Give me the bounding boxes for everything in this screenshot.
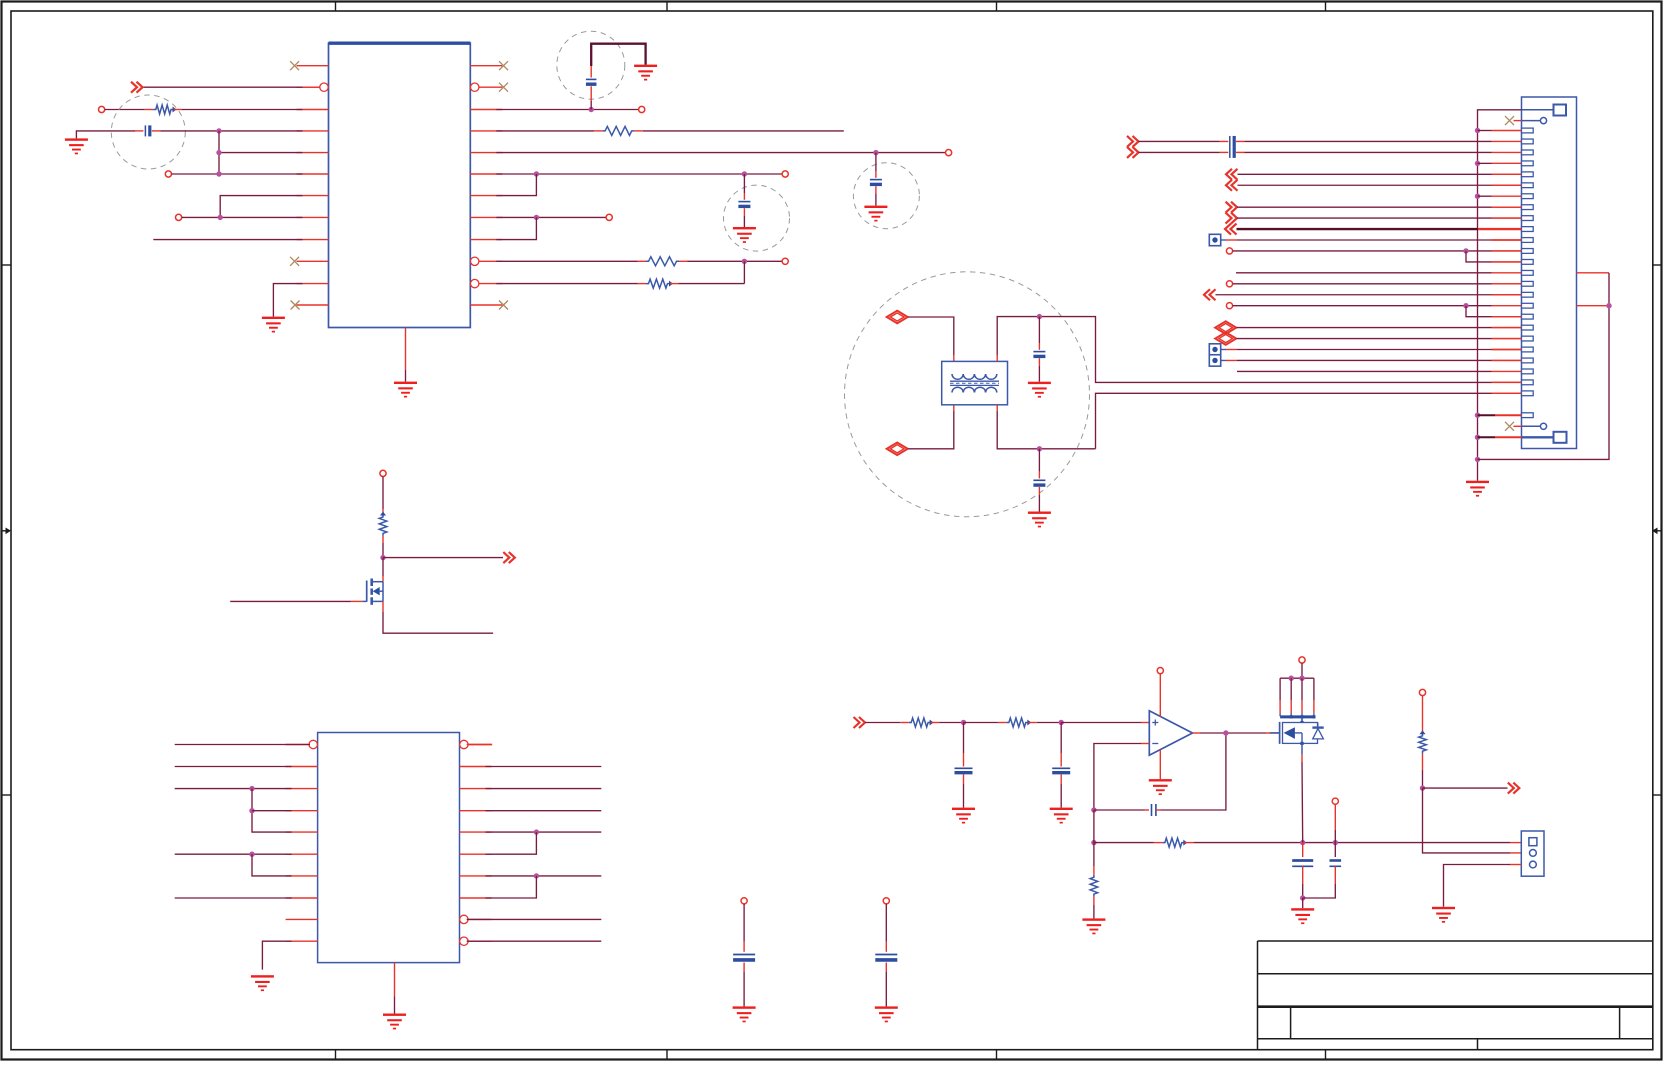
ground symbol J2 [1432,907,1455,923]
connector J1 shield pad top [1522,105,1567,116]
wire R4 to branch [670,283,744,285]
wire U1 bottom pin to ground [405,370,407,382]
no-connect pin2 right [499,83,508,92]
terminal C5 top [741,898,747,904]
test pad TP1 [1209,234,1226,245]
wire J1 row9 [1237,217,1522,219]
connector J2 body [1521,831,1544,876]
resistor R9 vertical [1090,875,1098,897]
IC U1 right pin stubs [470,66,502,305]
no-connect J1 mount top [1505,116,1522,125]
wire J1 shield bottom [1478,436,1522,438]
IC U1 body [329,43,471,327]
wire U1 pin11 to ground [273,284,302,317]
IC U2 right pin stubs [460,745,492,942]
terminal pin6 right [782,171,788,177]
wire node to Q1 drain [382,558,384,582]
wire U1 pin11 to R4 [496,283,646,285]
IC U2 left pin stubs [286,745,318,942]
title block [1258,941,1653,1050]
wire T1 secondary top [997,314,1092,362]
node fb lower junction [1091,840,1096,845]
ground symbol U1 pin11 [262,317,285,333]
wire secondary bottom to J1 [1096,393,1522,449]
wire Q1 drain pullup [382,477,384,515]
wire Q1 source [383,601,493,633]
no-connect J1 mount bottom [1505,422,1522,431]
wire C10 to ground [963,774,965,807]
wire C8 branch [1038,449,1040,512]
ground symbol top-left [65,138,88,154]
wire node to J2 pin2 [1423,788,1522,853]
terminal pin5 right [946,150,952,156]
wire J1 row10 thick [1237,228,1522,230]
wire U2 pin3 left [175,786,292,791]
resistor R4 [646,279,673,288]
wire node1 to C10 [963,723,965,767]
wire Q2 gate stub [1270,732,1280,734]
wire U1 pin3 right [496,107,638,112]
ground symbol C6 [875,1006,898,1022]
input port chevron J1 r9 [1226,213,1238,224]
wire U2 pin19 right [467,918,602,920]
wire J1 row2 [1139,140,1492,142]
terminal pin6 left [165,171,171,177]
connector J2 pin1 pad [1529,838,1537,846]
output port chevron J1 r10 [1225,224,1237,235]
ground symbol C8 [1028,512,1051,528]
wire U3 vee [1159,750,1161,780]
port diamond T1 in- [887,443,908,456]
wire J1 row17 [1233,303,1492,308]
capacitor C15 series [1230,147,1234,158]
wire R8 to source node [1184,840,1521,845]
test pad TP2 [1209,344,1226,355]
terminal pin3 left [99,106,105,112]
wire fb down [1093,810,1095,843]
capacitor C2 [586,79,597,84]
wire J1 row23 [1237,370,1492,372]
output port chevron Q1 [503,552,515,563]
wire C6 [885,904,887,1007]
wire U2 pin6 left [175,852,292,857]
wire U3 vcc [1159,674,1161,717]
connector J1 pin boxes [1522,128,1534,417]
ground symbol U2 power [383,1014,406,1030]
ground symbol R9 [1082,918,1105,934]
wire U1 pin4 right to R2 [496,130,602,132]
test pad TP3 [1209,355,1226,366]
wire C3 branch [875,153,877,206]
terminal R10 top [1419,689,1425,695]
terminal pin8 left [176,214,182,220]
inverting bubble U2 pin19 right [460,915,468,923]
terminal Q1 drain top [380,470,386,476]
input port chevron J1 r3 [1127,147,1139,158]
branch wire rows12-13 [1466,251,1522,262]
wire U2 pin12 right [486,766,602,768]
wire C14 top [1334,804,1336,857]
wire C1 to U1 pin4 [152,128,303,133]
wire U1 pin5 right [496,150,945,155]
terminal Q2 drain [1299,657,1305,663]
connector J2 pin3 pad [1530,861,1537,868]
inverting bubble U1 pin2 right [471,83,479,91]
wire node to port [383,557,503,559]
wire R10 top [1422,696,1424,734]
dashed emphasis circle cap C3 [853,163,919,229]
transistor Q2 [1280,715,1324,745]
resistor R5 vertical [379,512,387,536]
wire U2 pin14 right [486,810,602,812]
wire C4 branch [743,174,745,227]
IC U1 bottom power pin stub [405,328,407,371]
wire T1 secondary bottom [997,405,1095,452]
capacitor C6 [875,955,897,960]
input port chevron J1 r2 [1127,136,1139,147]
wire R3 onward [679,259,782,264]
wire U2 pin2 left [175,766,292,768]
wire junction to U2 pin4 [252,810,292,812]
wire U2 pin17 right [486,873,602,878]
capacitor C11 [1052,768,1070,772]
wire pin3 left segment [105,109,154,111]
wire C12 to output [1156,733,1226,810]
border centre arrow left [2,528,12,535]
wire Q2 source [1301,743,1304,842]
wire J1 row3 [1139,151,1492,153]
capacitor C3 [870,180,882,185]
no-connect pin1 right [499,61,508,70]
output port chevron feedback [1508,783,1520,794]
wire R5 to node [382,536,384,558]
IC U1 left pin stubs [297,66,329,305]
wire J1 pin27 [1478,414,1522,416]
ground symbol C5 [733,1006,756,1022]
ground symbol C2 [634,65,657,81]
wire net CLK to U1 pin2 [143,86,322,88]
wire R7 to node2 [1028,720,1064,725]
port diamond J1 r19 [1215,321,1236,334]
terminal J1 r17 [1226,303,1232,309]
output port chevron J1 r5 [1226,169,1238,180]
wire J2 pin3 to ground [1444,865,1522,907]
wire J1 row21 [1226,349,1522,351]
capacitor C14 [1330,861,1342,867]
wire J1 row11 [1226,239,1522,241]
wire fb to R9 [1093,843,1095,875]
resistor R10 vertical [1419,730,1427,753]
capacitor C1 series [145,125,149,136]
drain rail [1280,676,1314,681]
node Q1 gate-feed junction [380,555,385,560]
inverting bubble U1 pin11 right [471,279,479,287]
ground symbol C10 [952,808,975,824]
dashed emphasis circle cap C4 [724,185,790,251]
resistor R2 [603,126,635,135]
wire U2 pin15 right [486,829,602,834]
wire node to port [1423,787,1508,789]
node feedback junction [1091,807,1096,812]
wire U2 pin11 right stub [467,744,493,746]
dashed emphasis circle top cap [557,31,625,99]
wire J1 bus stub r1 [1478,130,1492,132]
IC U2 body [318,733,460,963]
wire U1 pin10 to R3 [496,260,646,262]
wire U2 pin1 left [175,744,310,746]
wire R9 to ground [1093,897,1095,919]
wire T1 primary top [908,317,954,361]
terminal C14 top [1332,798,1338,804]
wire R1 to U1 pin3 [174,109,303,111]
wire cap bank node [1302,843,1304,857]
wire J1 row22 [1226,359,1522,361]
wire C13 to gnd node [1300,866,1305,900]
wire U2 power pin [394,996,396,1013]
ground symbol U3 [1149,779,1172,795]
ground symbol C3 [864,206,887,222]
no-connect pin12 right [499,301,508,310]
wire R6 to node1 [931,720,967,725]
terminal J1 r12 [1226,248,1232,254]
ground bus wire J1 [1475,110,1522,481]
no-connect pin12 left [291,301,300,310]
wire pin6 left [172,171,303,176]
wire U2 pin8 left [175,897,292,899]
wire C5 [743,904,745,1007]
ground symbol Q2 source [1291,908,1314,924]
terminal pin10 right [782,258,788,264]
wire U2 pin13 right [486,788,602,790]
wire U3 inverting input [1094,744,1149,811]
wire T1 primary bottom [908,405,954,449]
wire J1 row19 [1236,327,1521,329]
wire node2 to C11 [1060,723,1062,767]
wire U3 output [1193,730,1280,735]
port diamond J1 r20 [1215,332,1236,345]
resistor R6 [909,718,934,727]
input port chevron pin2 [131,82,143,93]
wire U1 pin6 right [496,171,782,176]
resistor R3 [646,257,679,266]
drain rail wires [1280,678,1314,716]
branch wire pins3-5 [249,789,291,833]
ground symbol J1 bus [1466,481,1489,497]
capacitor C13 [1292,861,1313,867]
output port chevron J1 r16 [1204,289,1216,300]
wire R10 to node [1420,754,1425,791]
wire pin6-pin7 branch [496,174,536,196]
IC U2 bottom power stub [394,963,396,997]
wire node2 to opamp + [1061,722,1149,724]
dashed emphasis circle left [111,95,185,169]
terminal U3 vcc [1157,668,1163,674]
wire gnd to C1 [76,131,143,139]
inverting bubble U1 pin2 left [320,83,328,91]
ground symbol C4 [733,227,756,243]
branch wire pins6-7 [252,854,292,876]
ground symbol U1 power [394,382,417,398]
wire J1 row14 [1236,272,1492,274]
capacitor C5 [733,955,755,960]
wire J1 bus stub r7 [1478,195,1492,197]
wire J1 row8 [1237,206,1522,208]
capacitor C9 series [1230,136,1234,147]
inverting bubble U2 pin11 right [460,740,468,748]
connector J1 mounting hole top [1522,118,1547,124]
resistor R7 [1006,718,1031,727]
wire J1 row6 [1238,184,1522,186]
wire pin10-pin11 branch [743,261,745,283]
wire drain to rail [1301,663,1303,678]
wire J1 row12 [1233,248,1522,253]
wire port to R6 [865,722,909,724]
capacitor C4 [738,202,750,207]
branch wire rows17-18 [1466,306,1522,317]
resistor R8 [1162,838,1187,847]
wire U1 pin9 left [153,239,302,241]
wire pin8-pin9 branch [496,217,536,239]
wire C7 branch [1038,317,1040,382]
wire U1 pin8 right [496,215,606,220]
connector J1 shield pad bottom [1522,432,1567,443]
wire C14 bottom [1303,866,1336,898]
wire secondary top to J1 [1092,317,1521,383]
port diamond T1 in+ [887,311,908,324]
wire pin8 left [182,215,303,220]
connector J2 pin2 pad [1530,850,1537,857]
wire node1 to R7 [964,722,1007,724]
op-amp U3 [1149,711,1192,755]
capacitor C8 [1033,480,1045,485]
transformer T1 [942,361,1008,404]
resistor R1 [153,105,176,114]
terminal J1 r15 [1226,281,1232,287]
ground symbol C7 [1028,382,1051,398]
no-connect pin10 left [290,257,299,266]
capacitor C7 [1033,352,1045,357]
ground symbol C11 [1050,808,1073,824]
terminal pin3 right [639,106,645,112]
vertical junction bus x219 [218,131,220,174]
wire Q1 gate [230,600,367,602]
wire J1 row5 [1238,173,1522,175]
output port chevron J1 r6 [1226,180,1238,191]
wire R2 onward [634,130,844,132]
wire J1 row15 [1233,283,1522,285]
border centre arrow right [1652,528,1662,535]
wire U1 pin7 to branch [220,196,302,218]
wire J1 row20 [1236,338,1521,340]
wire gnd node down [1302,898,1304,908]
dashed emphasis circle transformer [845,272,1090,517]
wire cap C2 branch [591,44,645,110]
terminal C6 top [883,898,889,904]
wire J1 right vbus [1478,273,1612,460]
branch wire pins17-18 [486,876,537,898]
input port chevron opamp [854,717,866,728]
wire fb to R8 [1094,842,1163,844]
inverting bubble U2 pin20 right [460,937,468,945]
branch wire pins15-16 [486,832,537,854]
inverting bubble U2 pin1 left [309,740,317,748]
wire junction to U1 pin5 [216,150,302,155]
wire C11 to ground [1060,774,1062,807]
wire J1 row16 [1216,294,1522,296]
wire feedback to C12 [1094,809,1149,811]
ground symbol U2 pin10 [251,975,274,991]
transistor Q1 [367,579,383,605]
capacitor C10 [955,768,973,772]
connector J1 body [1522,97,1577,449]
capacitor C12 series [1152,804,1156,816]
input port chevron J1 r8 [1226,202,1238,213]
connector J1 pin stubs [1492,131,1522,416]
terminal pin8 right [606,214,612,220]
inverting bubble U1 pin10 right [471,257,479,265]
wire U2 pin20 right [467,940,602,942]
wire U2 pin10 to ground [262,941,291,969]
connector J1 mounting hole bottom [1522,423,1547,429]
wire J1 bus stub r4 [1478,162,1492,164]
no-connect pin1 left [290,61,299,70]
